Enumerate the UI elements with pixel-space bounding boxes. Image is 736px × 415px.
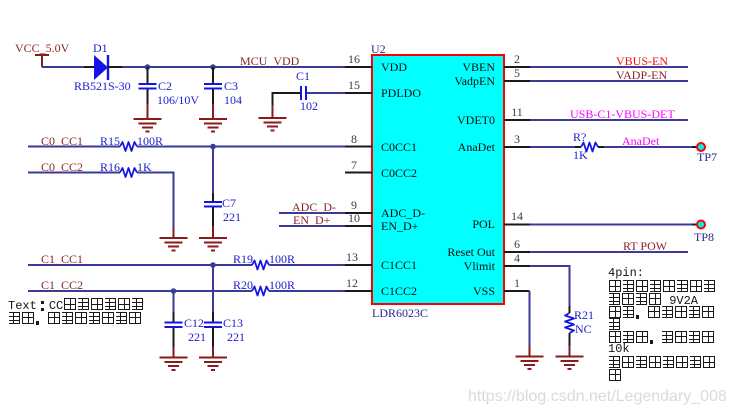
designator C3 — [224, 80, 238, 92]
pin 2 stub — [504, 66, 530, 68]
capacitor C13 — [204, 323, 222, 328]
pin number 8 — [346, 133, 362, 145]
wire VBUS-EN net — [530, 66, 688, 68]
note line 9 — [608, 369, 622, 383]
pin number 11 — [509, 106, 525, 118]
wire R16 down to ground — [137, 173, 174, 228]
pin name PDLDO — [381, 87, 421, 99]
wire C0_CC1 net — [28, 146, 120, 148]
designator R19 — [233, 253, 253, 265]
pin 10 stub — [345, 225, 372, 227]
ground under C2 — [134, 104, 162, 132]
pin name Vlimit — [395, 260, 495, 272]
pin name ADC_D- — [381, 207, 425, 219]
resistor R19 — [252, 261, 269, 270]
note line 5 — [608, 318, 621, 332]
wire R21 to ground — [569, 333, 571, 346]
ground under C3 — [199, 104, 227, 132]
pin name EN_D+ — [381, 220, 418, 232]
pin number 1 — [509, 277, 525, 289]
ground under C13 — [199, 347, 227, 370]
pin number 14 — [509, 210, 525, 222]
pin 1 stub — [504, 290, 530, 292]
pin 14 stub — [504, 224, 530, 226]
capacitor C2 — [139, 84, 157, 89]
pin name C0CC1 — [381, 141, 417, 153]
wire C1_CC1 net — [28, 264, 252, 266]
pin number 15 — [346, 79, 362, 91]
pin number 16 — [346, 53, 362, 65]
value 221 of C13 — [227, 331, 245, 343]
net label VADP-EN — [616, 69, 667, 81]
net label C0_CC1 — [41, 135, 83, 147]
net label C1_CC2 — [41, 279, 83, 291]
pin 7 stub — [345, 172, 372, 174]
note line 3 — [608, 293, 698, 307]
note line 4 — [608, 306, 715, 320]
pin name VBEN — [395, 61, 495, 73]
pin 4 stub — [504, 265, 530, 267]
value NC of R21 — [575, 323, 592, 335]
designator D1 — [93, 42, 108, 54]
wire VSS down to ground — [529, 291, 531, 346]
wire R19 to pin 13 — [269, 264, 345, 266]
pin number 3 — [509, 133, 525, 145]
note text left CJK line 1 — [8, 298, 144, 312]
capacitor C12 — [165, 323, 183, 328]
resistor R21 — [565, 313, 574, 333]
designator C7 — [222, 197, 236, 209]
designator R21 — [574, 309, 594, 321]
resistor R? — [581, 143, 598, 152]
ground under R16 — [160, 227, 188, 251]
pin number 9 — [346, 199, 362, 211]
pin 8 stub — [345, 146, 372, 148]
pin name VadpEN — [395, 75, 495, 87]
pin 3 stub — [504, 146, 530, 148]
wire C12 from junction — [173, 291, 175, 312]
pin name C0CC2 — [381, 167, 417, 179]
wire RT_POW net — [530, 251, 688, 253]
pin 11 stub — [504, 119, 530, 121]
ground under C1 — [259, 105, 287, 131]
pin 9 stub — [345, 212, 372, 214]
wire MCU_VDD rail — [122, 66, 345, 68]
pin number 6 — [509, 238, 525, 250]
wire AnaDet net to TP7 — [598, 146, 697, 148]
pin number 10 — [346, 212, 362, 224]
net label RT_POW — [623, 240, 667, 252]
designator C13 — [223, 317, 243, 329]
junction at C3 — [210, 64, 216, 70]
note text left CJK line 2 — [8, 312, 142, 326]
net label C0_CC2 — [41, 161, 83, 173]
value 1K of R? — [573, 149, 588, 161]
note text 4pin block — [608, 267, 644, 279]
net label VCC_5.0V — [15, 42, 69, 54]
pin name C1CC2 — [381, 285, 417, 297]
pin number 2 — [509, 53, 525, 65]
designator R20 — [233, 279, 253, 291]
junction C0_CC1 / C7 — [210, 144, 216, 150]
watermark — [468, 389, 727, 405]
value 104 — [224, 94, 242, 106]
value 221 of C12 — [188, 331, 206, 343]
net label VBUS-EN — [616, 55, 668, 67]
value 106/10V — [157, 94, 199, 106]
value 221 of C7 — [223, 211, 241, 223]
wire EN_D+ net — [279, 225, 345, 227]
pin 16 stub — [345, 66, 372, 68]
net label USB-C1-VBUS-DET — [570, 108, 675, 120]
test point TP8 — [697, 221, 705, 229]
capacitor C3 leads — [212, 67, 214, 104]
value LDR6023C — [372, 307, 428, 319]
wire pin4 down to R21 — [530, 266, 570, 313]
pin 15 stub — [345, 92, 372, 94]
value 100R of R20 — [269, 279, 295, 291]
pin name POL — [395, 218, 495, 230]
wire diode anode lead — [84, 66, 94, 68]
note line 2 — [608, 280, 716, 294]
IC U2 body — [372, 55, 504, 304]
pin number 5 — [509, 67, 525, 79]
ground under R21 — [556, 346, 584, 369]
ground under C12 — [160, 347, 188, 370]
wire ADC_D- net — [279, 212, 345, 214]
capacitor C2 leads — [147, 67, 149, 104]
designator R16 — [100, 161, 120, 173]
pin 6 stub — [504, 251, 530, 253]
wire POL net to TP8 — [530, 224, 697, 226]
label TP7 — [697, 151, 717, 163]
test point TP7 — [697, 143, 705, 151]
capacitor C1 — [301, 86, 306, 100]
designator U2 — [371, 43, 386, 55]
designator C12 — [184, 317, 204, 329]
ground under VSS — [516, 346, 544, 369]
net label C1_CC1 — [41, 253, 83, 265]
capacitor C7 — [204, 202, 222, 207]
designator R15 — [100, 135, 120, 147]
pin name C1CC1 — [381, 259, 417, 271]
junction C1_CC2 / C12 — [171, 288, 177, 294]
value 1K of R16 — [137, 161, 152, 173]
pin name AnaDet — [395, 141, 495, 153]
designator C1 — [296, 70, 310, 82]
pin 5 stub — [504, 80, 530, 82]
pin name VDD — [381, 61, 407, 73]
resistor R15 — [120, 142, 137, 151]
net label MCU_VDD — [240, 55, 299, 67]
note line 6 — [608, 331, 715, 345]
wire R20 to pin 12 — [269, 290, 345, 292]
junction C1_CC1 / C13 — [210, 262, 216, 268]
wire C1 left to ground — [273, 93, 302, 105]
wire diode cathode lead — [108, 66, 122, 68]
net label EN_D+ — [293, 214, 330, 226]
note line 7 — [608, 343, 630, 355]
power symbol VCC_5.0V — [35, 55, 49, 67]
value 100R of R19 — [269, 253, 295, 265]
wire pin3 to R? — [530, 146, 581, 148]
pin 13 stub — [345, 264, 372, 266]
capacitor C13 leads — [212, 312, 214, 347]
designator R? — [573, 131, 586, 143]
resistor R16 — [120, 168, 137, 177]
wire R15 to pin 8 — [137, 146, 345, 148]
pin name VSS — [395, 285, 495, 297]
value 102 — [300, 100, 318, 112]
pin 12 stub — [345, 290, 372, 292]
capacitor C7 leads — [212, 193, 214, 226]
capacitor C12 leads — [173, 312, 175, 347]
value 100R of R15 — [137, 135, 163, 147]
pin name Reset Out — [395, 246, 495, 258]
pin number 7 — [346, 159, 362, 171]
pin number 13 — [344, 251, 360, 263]
wire C1_CC2 net — [28, 290, 252, 292]
wire C7 from junction — [212, 147, 214, 194]
pin name VDET0 — [395, 114, 495, 126]
wire pin15 to C1 — [306, 92, 345, 94]
diode D1 RB521S-30 — [94, 55, 108, 80]
net label ADC_D- — [292, 201, 336, 213]
wire VCC rail to diode — [42, 66, 84, 68]
resistor R20 — [252, 287, 269, 296]
value RB521S-30 — [74, 80, 131, 92]
designator C2 — [158, 80, 172, 92]
junction at C2 — [145, 64, 151, 70]
capacitor C3 — [204, 84, 222, 89]
wire C0_CC2 net — [28, 172, 120, 174]
wire C13 from junction — [212, 265, 214, 312]
wire USB-C1-VBUS-DET net — [530, 119, 688, 121]
wire VADP-EN net — [530, 80, 688, 82]
pin number 12 — [344, 277, 360, 289]
ground under C7 — [199, 226, 227, 251]
note line 8 — [608, 356, 716, 370]
label TP8 — [694, 231, 714, 243]
pin number 4 — [509, 252, 525, 264]
net label AnaDet — [622, 135, 659, 147]
